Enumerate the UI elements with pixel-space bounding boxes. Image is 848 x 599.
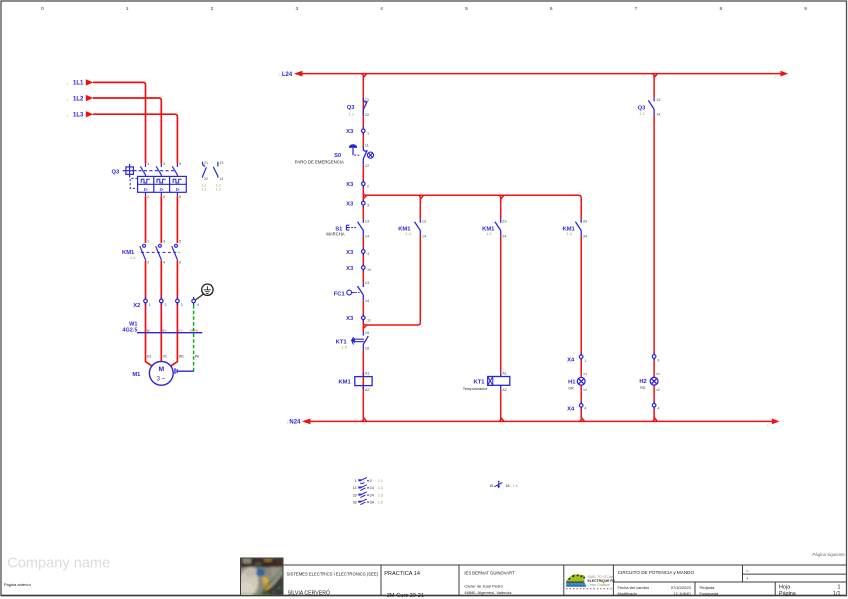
svg-text:3: 3 <box>163 240 165 244</box>
svg-text:x2: x2 <box>583 388 587 392</box>
wire 1L3 to Q3 pole 3 <box>93 114 177 163</box>
svg-text:1: 1 <box>584 359 586 363</box>
cross-reference table KM1 <box>353 478 383 505</box>
label 1L2 <box>67 96 84 102</box>
wire KM1 to X2 and down to motor M1 <box>146 261 178 367</box>
svg-text:34: 34 <box>583 235 587 239</box>
svg-text:1: 1 <box>367 131 369 135</box>
svg-text:PRACTICA 14: PRACTICA 14 <box>384 571 420 577</box>
svg-text:L'elec Goldium: L'elec Goldium <box>588 583 611 587</box>
svg-text:24: 24 <box>370 493 374 497</box>
svg-text:11: 11 <box>365 144 369 148</box>
svg-text:21: 21 <box>365 98 369 102</box>
pole 1 <box>140 164 145 177</box>
svg-text:x2: x2 <box>656 388 660 392</box>
svg-text:1: 1 <box>147 162 149 166</box>
svg-text:/: / <box>775 75 776 79</box>
svg-text:A1: A1 <box>502 372 507 376</box>
terminal X3:10 <box>362 264 366 272</box>
svg-text:11: 11 <box>367 318 371 322</box>
contactor contact KM1 13-14 (latch) <box>415 219 421 236</box>
svg-text:A2: A2 <box>502 388 507 392</box>
wire KT1 branch x=500 <box>500 198 502 419</box>
svg-text:18: 18 <box>506 484 510 488</box>
svg-text:1L3: 1L3 <box>73 113 84 119</box>
terminal X4:4 <box>579 401 583 409</box>
terminal X3:1 <box>362 127 366 135</box>
svg-text:X3: X3 <box>346 202 354 208</box>
svg-text:3M-Curs 20-21: 3M-Curs 20-21 <box>387 593 424 599</box>
svg-text:/: / <box>767 423 768 427</box>
wire main branch verticals <box>362 76 364 419</box>
terminal X2:1 <box>144 297 148 305</box>
svg-text:Modificado: Modificado <box>618 591 638 596</box>
svg-text:33: 33 <box>583 219 587 223</box>
svg-text:2: 2 <box>147 260 149 264</box>
svg-text:Fusionada: Fusionada <box>700 591 719 596</box>
breaker aux Q3 21-22 (control) <box>363 98 367 115</box>
svg-text:13: 13 <box>365 219 369 223</box>
svg-text:1.5: 1.5 <box>378 493 383 497</box>
svg-text:23: 23 <box>353 493 357 497</box>
svg-text:24: 24 <box>502 235 506 239</box>
wire PE green <box>193 305 195 371</box>
svg-text:/: / <box>67 113 69 118</box>
svg-text:OR: OR <box>568 386 574 390</box>
thermal-magnetic box <box>138 176 187 192</box>
svg-text:15: 15 <box>489 484 493 488</box>
wire PE to motor frame <box>175 368 194 374</box>
svg-text:4: 4 <box>367 252 369 256</box>
svg-text:1: 1 <box>147 240 149 244</box>
svg-text:7: 7 <box>635 6 638 12</box>
svg-text:13: 13 <box>422 219 426 223</box>
svg-text:1.4: 1.4 <box>513 484 518 488</box>
svg-text:12: 12 <box>365 164 369 168</box>
timer coil KT1 Temporizador <box>488 372 510 389</box>
svg-text:3: 3 <box>163 162 165 166</box>
svg-text:SISTEMES ELECTRICS I ELECTRONI: SISTEMES ELECTRICS I ELECTRONICS (SEE) <box>287 572 379 577</box>
svg-text:2: 2 <box>164 303 166 307</box>
svg-text:M1: M1 <box>132 372 141 378</box>
wire latch return row y=325 <box>363 323 420 329</box>
svg-text:6: 6 <box>179 195 181 199</box>
svg-text:RD: RD <box>640 386 646 390</box>
svg-text:1.4: 1.4 <box>378 486 383 490</box>
svg-text:1.5: 1.5 <box>341 345 347 350</box>
svg-text:1.1: 1.1 <box>639 111 645 116</box>
svg-text:PE: PE <box>195 354 200 358</box>
svg-text:Página siguiente: Página siguiente <box>812 552 845 557</box>
svg-text:1.6: 1.6 <box>378 500 383 504</box>
svg-text:33: 33 <box>353 500 357 504</box>
svg-text:4: 4 <box>163 260 165 264</box>
svg-text:Company name: Company name <box>7 555 110 571</box>
terminal X3:3 <box>362 199 366 207</box>
svg-text:=: = <box>746 569 749 574</box>
junction L24 / main branch <box>361 74 367 78</box>
svg-text:13: 13 <box>219 161 223 165</box>
svg-text:V1: V1 <box>163 354 167 358</box>
svg-text:I>: I> <box>176 187 180 192</box>
node 1L2 feed arrow <box>86 95 94 101</box>
svg-text:L24: L24 <box>282 72 293 78</box>
svg-text:X2: X2 <box>133 303 140 309</box>
svg-text:SÍLVIA CERVERÓ: SÍLVIA CERVERÓ <box>288 589 330 596</box>
contactor contact KM1 33-34 <box>575 219 581 236</box>
svg-text:1L1: 1L1 <box>73 81 84 87</box>
svg-text:3: 3 <box>181 303 183 307</box>
svg-text:H2: H2 <box>639 379 646 385</box>
svg-text:BN: BN <box>162 328 166 332</box>
svg-text:22: 22 <box>204 177 208 181</box>
svg-text:FC1: FC1 <box>334 292 346 298</box>
svg-text:34: 34 <box>370 500 374 504</box>
svg-text:1: 1 <box>149 303 151 307</box>
svg-text:M: M <box>158 366 164 373</box>
svg-text:U1: U1 <box>147 354 151 358</box>
svg-text:2: 2 <box>370 479 372 483</box>
node 1L1 feed arrow <box>86 79 94 85</box>
terminal X3:2 <box>362 180 366 188</box>
svg-text:18: 18 <box>365 347 369 351</box>
cable W1 4G2.5 <box>137 332 202 334</box>
svg-text:Q3: Q3 <box>111 169 120 175</box>
svg-text:I>: I> <box>144 187 148 192</box>
terminal X4:1 <box>579 353 583 361</box>
svg-text:Página anterior: Página anterior <box>4 582 32 587</box>
svg-text:1: 1 <box>355 479 357 483</box>
svg-text:1.1: 1.1 <box>378 479 383 483</box>
svg-text:Temporizador: Temporizador <box>463 386 488 391</box>
svg-text:21: 21 <box>204 161 208 165</box>
svg-text:X3: X3 <box>346 129 354 135</box>
svg-text:X3: X3 <box>346 250 354 256</box>
svg-text:1L2: 1L2 <box>73 96 84 102</box>
QET logo <box>566 574 615 589</box>
Q3 aux contact 13-14 (floating) <box>213 162 218 178</box>
terminal X4:3 <box>652 353 656 361</box>
lamp H2 <box>650 377 658 385</box>
svg-text:Fecha del cambio: Fecha del cambio <box>618 585 650 590</box>
svg-text:A2: A2 <box>365 388 370 392</box>
ground symbol <box>195 284 213 300</box>
svg-text:07/10/2023: 07/10/2023 <box>671 585 692 590</box>
terminal X4:4b <box>652 401 656 409</box>
Q3 aux contact 21-22 (floating) <box>203 162 207 178</box>
svg-text:I>: I> <box>160 187 164 192</box>
svg-text:N24: N24 <box>289 420 301 426</box>
wire H2 branch x=654 <box>652 74 658 419</box>
svg-text:MARCHA: MARCHA <box>326 231 344 236</box>
svg-text:3: 3 <box>367 204 369 208</box>
wire H1 branch x=581 <box>580 198 582 419</box>
svg-text:3: 3 <box>295 6 298 12</box>
svg-text:4: 4 <box>380 6 383 12</box>
svg-text:23: 23 <box>502 219 506 223</box>
svg-text:2: 2 <box>367 184 369 188</box>
photo <box>238 558 283 598</box>
svg-text:CIRCUITO DE POTENCIA y MANDO: CIRCUITO DE POTENCIA y MANDO <box>618 570 695 575</box>
node N24 rail <box>304 420 772 422</box>
start button S1 MARCHA <box>358 219 364 236</box>
svg-text:1.4: 1.4 <box>130 255 136 260</box>
svg-text:4: 4 <box>657 407 659 411</box>
svg-text:H1: H1 <box>568 379 576 385</box>
svg-text:13: 13 <box>656 98 660 102</box>
svg-text:4: 4 <box>197 303 199 307</box>
svg-text:14: 14 <box>219 177 223 181</box>
svg-text:1.2: 1.2 <box>201 188 206 192</box>
svg-text:3 ~: 3 ~ <box>157 376 166 382</box>
svg-text:X4: X4 <box>567 406 575 412</box>
wire 1L2 to Q3 pole 2 <box>93 98 161 164</box>
terminal X3:4 <box>362 248 366 256</box>
svg-text:X4: X4 <box>567 358 575 364</box>
motor breaker Q3 (power) <box>123 164 187 197</box>
svg-text:KT1: KT1 <box>474 379 486 385</box>
wire Q3 to KM1 (3 poles) <box>146 196 178 243</box>
svg-text:14: 14 <box>365 235 369 239</box>
svg-text:4G2.5: 4G2.5 <box>122 328 137 334</box>
wire 1L1 to Q3 pole 1 <box>93 82 146 163</box>
svg-text:1.2: 1.2 <box>216 188 221 192</box>
svg-text:4: 4 <box>584 407 586 411</box>
terminal X2:4 (PE) <box>192 297 196 305</box>
svg-text:6: 6 <box>550 6 553 12</box>
lamp H1 <box>577 377 585 385</box>
svg-text:W1: W1 <box>179 354 184 358</box>
svg-text:22: 22 <box>365 113 369 117</box>
svg-text:2: 2 <box>147 195 149 199</box>
svg-text:13: 13 <box>353 486 357 490</box>
svg-text:1.4: 1.4 <box>566 231 572 236</box>
breaker aux Q3 13-14 (H2 branch) <box>648 98 654 115</box>
svg-text:8: 8 <box>719 6 722 12</box>
svg-text:A1: A1 <box>365 372 370 376</box>
svg-text:46680, Algemesí, València: 46680, Algemesí, València <box>464 590 512 595</box>
cross-reference KT1 <box>489 481 517 489</box>
pole 2 <box>156 164 161 177</box>
svg-text:Página: Página <box>779 591 796 597</box>
motor M1 <box>149 361 173 385</box>
svg-text:/: / <box>279 72 281 77</box>
svg-text:4: 4 <box>163 195 165 199</box>
svg-text:14: 14 <box>422 235 426 239</box>
svg-text:1: 1 <box>838 585 841 591</box>
label 1L1 <box>67 81 84 87</box>
svg-text:x1: x1 <box>656 372 660 376</box>
svg-text:Pedjada: Pedjada <box>700 585 715 590</box>
svg-text:1: 1 <box>126 6 129 12</box>
pole 3 <box>172 164 177 177</box>
svg-text:14: 14 <box>370 486 374 490</box>
svg-text:14: 14 <box>656 113 660 117</box>
contactor contact KM1 23-24 <box>495 219 501 236</box>
svg-text:GY: GY <box>178 328 182 332</box>
svg-text:1.4: 1.4 <box>486 231 492 236</box>
svg-text:/: / <box>67 81 69 86</box>
svg-text:KM1: KM1 <box>338 379 351 385</box>
svg-text:13: 13 <box>365 281 369 285</box>
column numbers <box>41 6 807 12</box>
svg-text:2: 2 <box>211 6 214 12</box>
limit switch FC1 <box>358 284 364 301</box>
terminal X2:2 <box>160 297 164 305</box>
svg-text:X3: X3 <box>346 266 354 272</box>
node L24 rail <box>296 73 781 75</box>
svg-text:x1: x1 <box>583 372 587 376</box>
svg-text:Q3: Q3 <box>347 105 356 111</box>
svg-text:BK: BK <box>147 328 151 332</box>
svg-text:+: + <box>746 576 749 581</box>
svg-text:/: / <box>67 97 69 102</box>
svg-text:1.1: 1.1 <box>349 111 355 116</box>
emergency stop S0 <box>363 147 367 165</box>
timer contact KT1 15-18 <box>363 332 368 350</box>
label 1L3 <box>67 113 84 119</box>
contactor KM1 main contacts <box>140 244 180 260</box>
coil KM1 <box>355 372 372 390</box>
svg-text:GNYE: GNYE <box>190 328 198 332</box>
svg-text:3: 3 <box>657 358 659 362</box>
terminal X2:3 <box>176 297 180 305</box>
terminal X3:11 <box>362 314 366 322</box>
svg-text:10: 10 <box>367 268 371 272</box>
node 1L3 feed arrow <box>86 111 94 117</box>
wire latch branch x=420 <box>419 198 421 323</box>
svg-text:0: 0 <box>41 6 44 12</box>
svg-text:6: 6 <box>179 260 181 264</box>
svg-text:Carrer de Juan Pedro: Carrer de Juan Pedro <box>464 583 503 588</box>
svg-text:PARO DE EMERGENCIA: PARO DE EMERGENCIA <box>295 160 344 165</box>
svg-text:14: 14 <box>365 299 369 303</box>
svg-text:1/1: 1/1 <box>833 591 841 597</box>
svg-text:15: 15 <box>365 331 369 335</box>
svg-text:Hoja: Hoja <box>779 585 790 591</box>
svg-text:IES BERNAT GUINOVART: IES BERNAT GUINOVART <box>464 571 515 576</box>
svg-text:X3: X3 <box>346 316 354 322</box>
svg-text:5: 5 <box>465 6 468 12</box>
wire branch row y=195 <box>363 193 581 200</box>
junctions on N24 <box>361 417 658 421</box>
svg-text:5: 5 <box>179 240 181 244</box>
svg-text:S0: S0 <box>334 153 341 159</box>
svg-text:X3: X3 <box>346 182 354 188</box>
svg-text:9: 9 <box>804 6 807 12</box>
svg-text:1.4: 1.4 <box>405 231 411 236</box>
svg-text:5: 5 <box>179 162 181 166</box>
svg-text:13 JUNIO: 13 JUNIO <box>673 591 691 596</box>
